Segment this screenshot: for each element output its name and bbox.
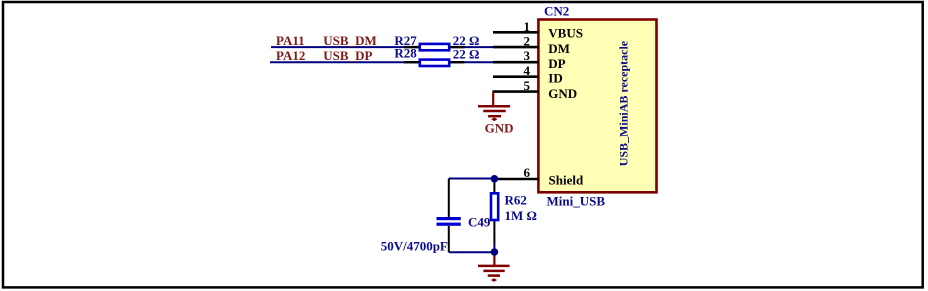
svg-text:4: 4 (524, 63, 531, 78)
svg-text:Mini_USB: Mini_USB (547, 194, 606, 209)
svg-text:CN2: CN2 (544, 4, 569, 19)
svg-text:Shield: Shield (549, 173, 584, 188)
svg-text:3: 3 (524, 48, 531, 63)
svg-text:ID: ID (548, 70, 562, 85)
svg-text:R28: R28 (394, 46, 417, 61)
svg-text:DP: DP (548, 56, 565, 71)
svg-text:VBUS: VBUS (548, 26, 583, 41)
svg-text:PA11: PA11 (276, 33, 305, 48)
svg-text:USB_DM: USB_DM (323, 33, 376, 48)
svg-text:GND: GND (548, 86, 577, 101)
svg-text:GND: GND (485, 121, 514, 136)
svg-text:PA12: PA12 (276, 48, 305, 63)
svg-text:C49: C49 (468, 214, 491, 229)
svg-text:1: 1 (524, 19, 531, 34)
svg-text:USB_DP: USB_DP (323, 48, 372, 63)
svg-text:50V/4700pF: 50V/4700pF (381, 238, 448, 253)
svg-text:22 Ω: 22 Ω (453, 33, 480, 48)
svg-text:5: 5 (524, 78, 531, 93)
svg-text:R62: R62 (505, 193, 527, 208)
svg-text:6: 6 (524, 165, 531, 180)
svg-text:22 Ω: 22 Ω (453, 47, 480, 62)
svg-text:USB_MiniAB receptacle: USB_MiniAB receptacle (616, 40, 630, 166)
svg-text:2: 2 (524, 33, 531, 48)
svg-text:1M Ω: 1M Ω (505, 208, 537, 223)
svg-text:DM: DM (548, 41, 570, 56)
